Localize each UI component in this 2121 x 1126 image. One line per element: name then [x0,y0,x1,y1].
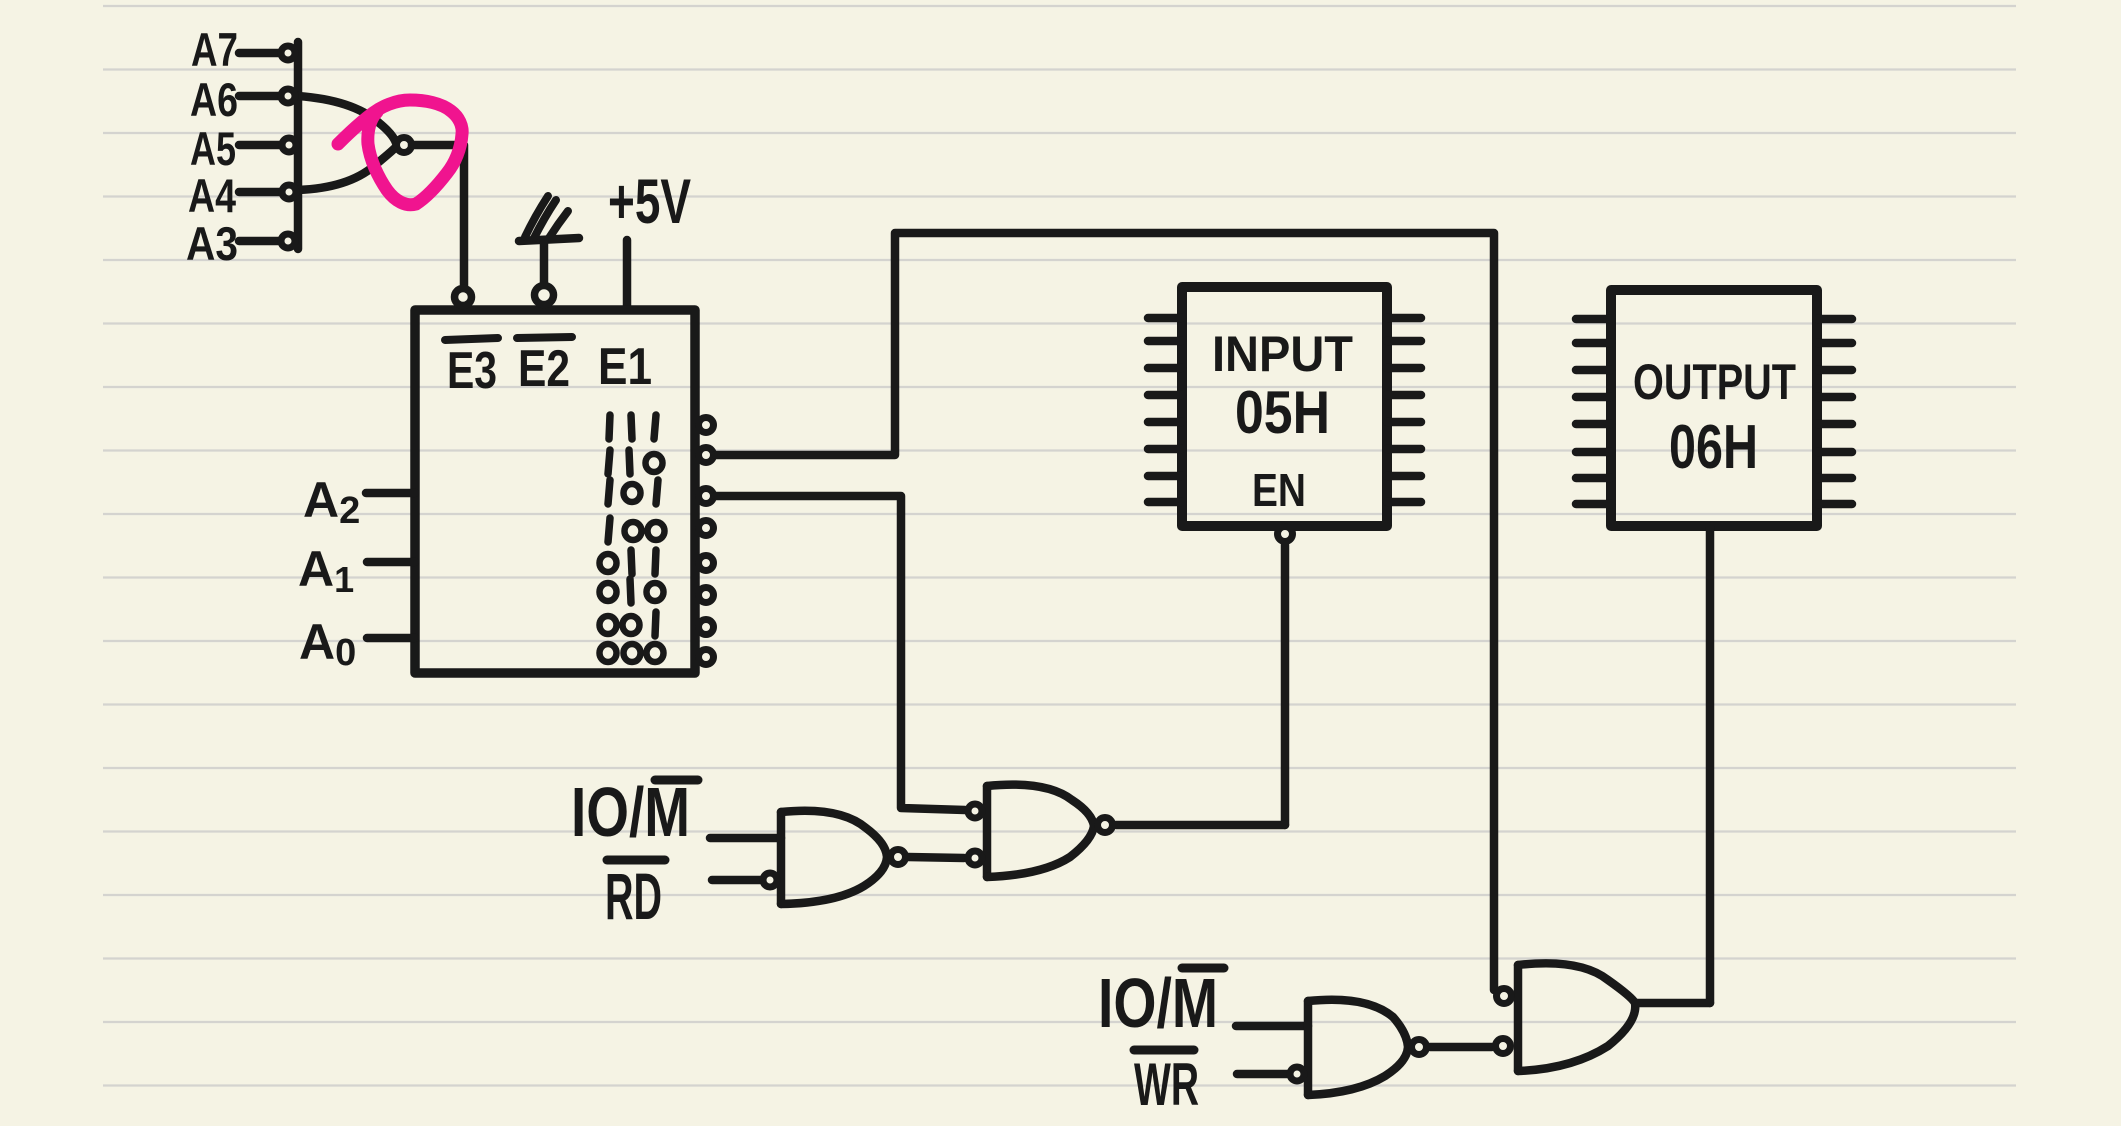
gate G2 output bubble [1098,818,1113,833]
pink annotation loop [338,100,462,205]
gate G2 NAND body [983,786,992,877]
svg-text:WR: WR [1134,1051,1199,1118]
gate G3 input bubble [1290,1067,1304,1081]
node A0 label [299,614,356,674]
svg-text:+5V: +5V [608,167,691,237]
wire A4 [239,188,280,197]
wire EN down to NAND output [1281,545,1290,825]
wire IO/M to gate G1 [710,834,781,843]
OUTPUT chip left pins [1576,315,1611,324]
gate G4 top input bubble [1497,989,1512,1004]
node A5 label [190,122,236,175]
wire A0 [367,634,415,643]
decoder output code 010 [600,579,664,603]
node A7 label [191,23,238,76]
wire A7 [239,49,279,58]
decoder E3bar label [447,342,497,400]
decoder output code 110 [608,450,663,474]
gate U1 input bubble A3 [281,234,295,248]
svg-text:INPUT: INPUT [1212,326,1353,382]
decoder output code 001 [600,612,657,636]
OUTPUT chip right pins [1817,315,1852,324]
svg-text:06H: 06H [1669,413,1758,482]
decoder output code 011 [600,550,657,574]
INPUT chip U3 box [1182,287,1387,526]
wire IO/M to gate G3 [1236,1022,1308,1031]
wire G4 output [1636,999,1710,1008]
gate U1 input bubble A5 [282,138,296,152]
decoder output bubble Y3 (011) [699,556,714,571]
svg-text:A3: A3 [186,217,238,270]
svg-text:E2: E2 [518,340,570,398]
node A2 label [303,472,360,532]
wire G2 out to EN [1116,821,1285,830]
decoder output bubble Y5 (101) [699,489,714,504]
INPUT chip left pins [1148,314,1182,323]
svg-text:05H: 05H [1235,379,1330,446]
decoder output bubble Y7 (111) [699,418,714,433]
decoder output code 101 [608,480,658,504]
decoder output code 000 [600,644,664,662]
05H label [1235,379,1330,446]
decoder E3 bubble [455,289,472,306]
svg-text:A6: A6 [190,73,238,126]
node A4 label [188,169,236,222]
wire WR to gate G3 [1237,1070,1287,1079]
wire OUTPUT chip down [1706,527,1715,1003]
label IO/M first pair [571,773,690,851]
decoder E1 label [598,338,652,396]
EN label [1252,464,1306,516]
INPUT EN bubble [1278,527,1293,542]
node A3 label [186,217,238,270]
wire A6 [239,92,279,101]
wire +5V to E1 [623,240,632,308]
wire decoder 110 output to NOR gate (long route) [716,233,1494,990]
svg-text:E1: E1 [598,338,652,396]
wire RD to gate G1 [712,876,760,885]
decoder output code 100 [608,518,665,542]
wire G3 out to G4 in [1430,1043,1492,1052]
gate G1 input bubble [763,873,777,887]
svg-text:IO/M: IO/M [1098,964,1218,1042]
wire decoder 101 output down to NAND pair [716,496,965,810]
gate G3 NAND body [1304,1001,1313,1095]
svg-text:A4: A4 [188,169,236,222]
wire A5 [239,141,280,150]
gate G3 output bubble [1412,1040,1427,1055]
gate G1 NAND body [777,812,786,904]
gate U1 5-input NAND body [294,42,303,249]
wire A2 [366,489,415,498]
svg-text:A5: A5 [190,122,236,175]
decoder U2 box [415,310,695,673]
label IO/M second pair [1098,964,1218,1042]
wire A1 [367,558,415,567]
gate U1 input bubble A7 [281,46,295,60]
decoder output bubble Y4 (100) [699,521,714,536]
OUTPUT label [1633,354,1796,410]
decoder output bubble Y1 (001) [699,620,714,635]
label RD first pair [605,859,662,933]
ground symbol [519,238,579,241]
INPUT chip right pins [1387,314,1421,323]
svg-text:EN: EN [1252,464,1306,516]
label WR second pair [1134,1051,1199,1118]
node A1 label [298,541,354,600]
decoder output bubble Y0 (000) [699,650,714,665]
+5V label [608,167,691,237]
gate G2 top input bubble [968,804,982,818]
INPUT label [1212,326,1353,382]
decoder output bubble Y2 (010) [699,588,714,603]
gate U1 input bubble A6 [281,89,295,103]
svg-text:A7: A7 [191,23,238,76]
svg-text:RD: RD [605,859,662,933]
gate G4 AND body [1514,965,1523,1071]
svg-text:E3: E3 [447,342,497,400]
gate U1 output bubble [397,138,412,153]
gate G1 output bubble [891,850,906,865]
decoder E2 bubble [535,286,554,305]
wire U1 output to E3 [412,145,464,286]
decoder output code 111 [609,415,656,439]
OUTPUT chip U4 box [1611,290,1817,526]
wire G1 out to G2 in [908,857,964,858]
node A6 label [190,73,238,126]
svg-text:OUTPUT: OUTPUT [1633,354,1796,410]
gate G2 bottom input bubble [968,851,982,865]
gate G4 bottom input bubble [1496,1039,1511,1054]
svg-text:IO/M: IO/M [571,773,690,851]
decoder output bubble Y6 (110) [699,448,714,463]
06H label [1669,413,1758,482]
gate U1 input bubble A4 [282,185,296,199]
wire A3 [239,237,279,246]
decoder E2bar label [518,340,570,398]
